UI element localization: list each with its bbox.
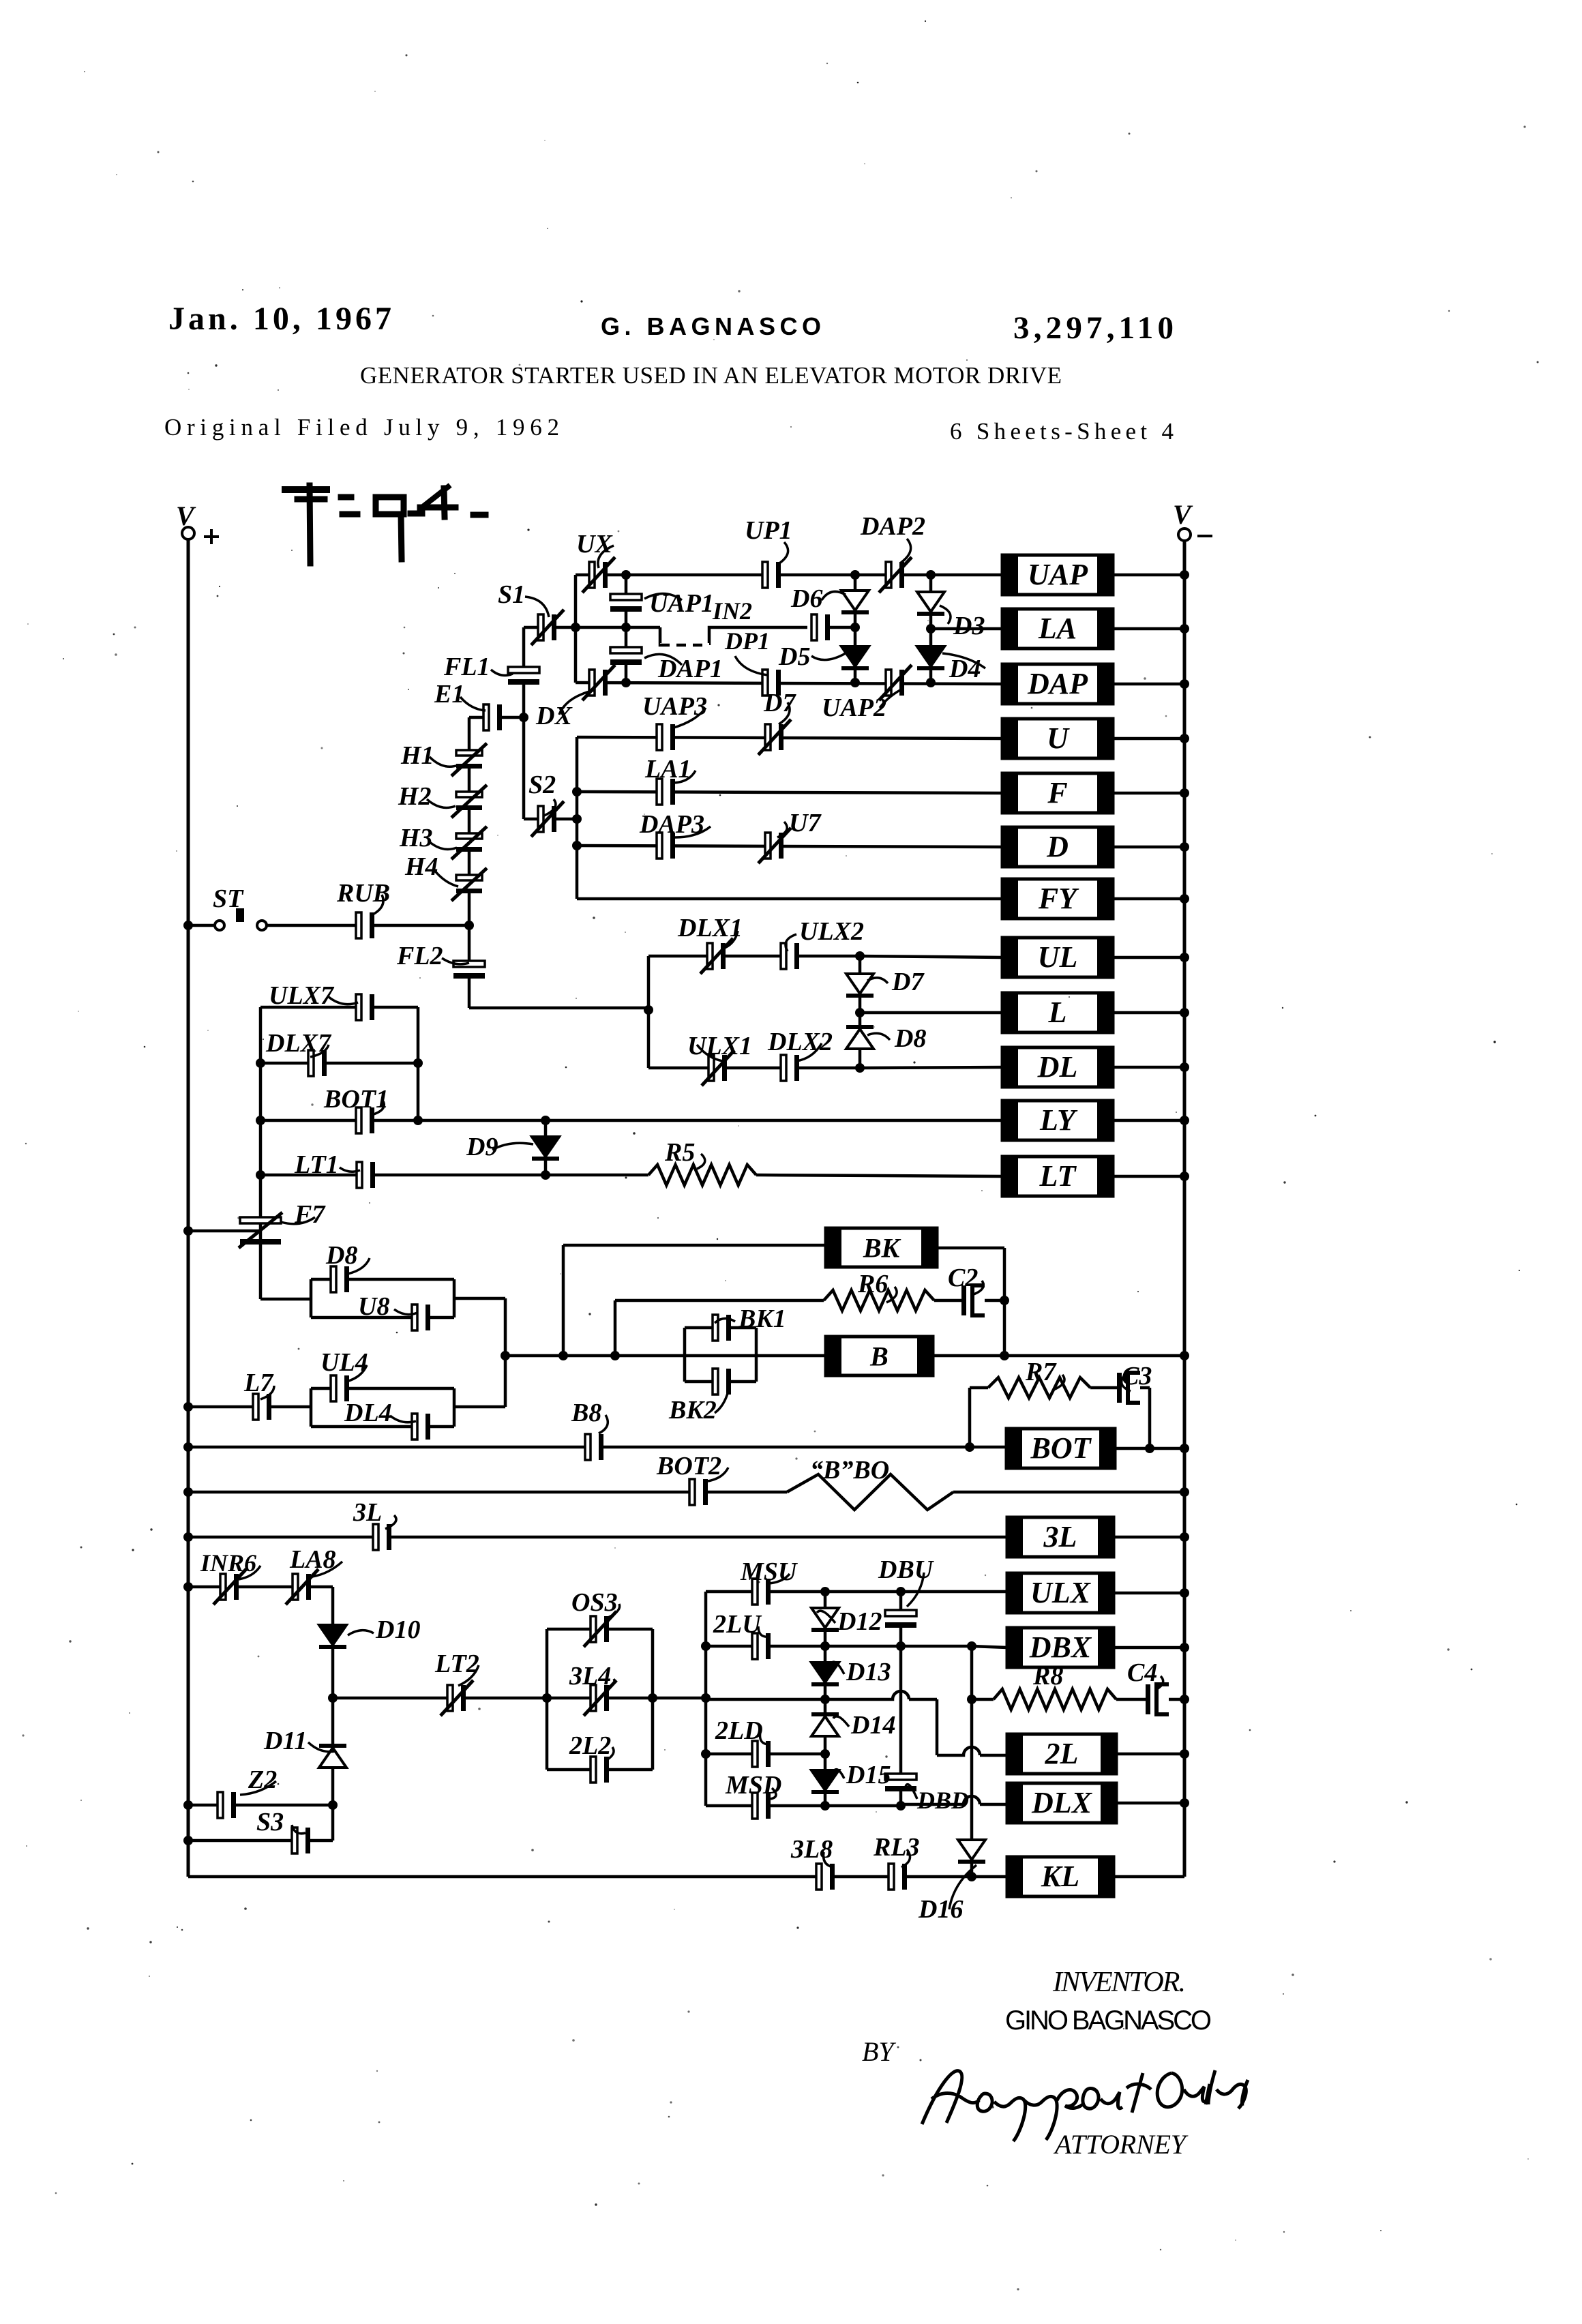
svg-text:DLX: DLX	[1031, 1786, 1093, 1819]
svg-text:DLX2: DLX2	[767, 1028, 833, 1056]
junction F7 on positive rail	[183, 1226, 193, 1236]
junction 3L4 left	[542, 1693, 552, 1703]
wire LT1 row	[260, 1174, 648, 1177]
leader R5	[697, 1154, 705, 1169]
wire 2L feed step	[936, 1699, 939, 1755]
svg-text:D16: D16	[918, 1895, 963, 1924]
wire mechanical interlock dashed link	[660, 627, 807, 645]
junction UAP1 bottom DAP1 top	[621, 623, 631, 632]
svg-text:LA: LA	[1038, 612, 1077, 645]
leader D8b	[867, 1033, 890, 1040]
leader 2L2	[606, 1747, 614, 1761]
svg-text:C2: C2	[948, 1264, 978, 1292]
junction ST on positive rail	[183, 921, 193, 930]
wire R8 lead	[972, 1698, 994, 1701]
junction D11 Z2 S3	[328, 1800, 338, 1810]
svg-text:DAP: DAP	[1027, 667, 1088, 700]
contact L7	[253, 1394, 271, 1420]
junction D14 D15	[820, 1749, 830, 1759]
junction D12 D13	[820, 1641, 830, 1651]
wire C4 to negative rail	[1169, 1698, 1184, 1701]
contact LA1	[657, 779, 675, 805]
svg-text:H4: H4	[404, 852, 438, 881]
wire F7 to D8 U8 group	[260, 1298, 311, 1301]
relay coil B	[826, 1337, 933, 1375]
wire Z2 to S3 link	[331, 1805, 335, 1841]
capacitor contact DAP1	[610, 647, 642, 665]
svg-text:D: D	[1046, 830, 1069, 863]
junction BK branch bottom	[558, 1351, 568, 1360]
wire left positive rail	[187, 539, 190, 1877]
wire FY coil to negative rail	[1113, 897, 1184, 901]
wire 2LD row	[706, 1753, 825, 1756]
leader 3L8	[824, 1852, 833, 1867]
wire UL4 DL4 left vertical	[310, 1388, 313, 1427]
leader DX	[559, 690, 595, 715]
wire UL coil to negative rail	[1113, 956, 1184, 959]
wire UL row to coil	[860, 956, 1002, 957]
leader DLX1	[721, 931, 738, 949]
leader D6	[822, 592, 846, 601]
diode D14	[811, 1712, 839, 1736]
junction C2 node	[1000, 1296, 1009, 1305]
leader LA8	[312, 1562, 342, 1577]
junction BOT1 right	[413, 1116, 423, 1125]
leader D7b	[867, 978, 888, 983]
leader DL4	[390, 1416, 416, 1422]
terminal V+ supply	[176, 501, 219, 544]
contact UX	[582, 557, 615, 593]
leader LA1	[672, 771, 696, 783]
junction LY on negative rail	[1180, 1116, 1189, 1125]
fuse F7	[239, 1212, 282, 1248]
junction UAP1 top	[621, 570, 631, 580]
leader C2	[974, 1281, 983, 1294]
contact H3	[451, 826, 487, 859]
junction B row on negative rail	[1180, 1351, 1189, 1360]
resistor R7	[988, 1377, 1090, 1398]
svg-text:R8: R8	[1032, 1662, 1063, 1690]
svg-text:BY: BY	[862, 2036, 896, 2067]
junction BO row on negative rail	[1180, 1487, 1189, 1497]
capacitor C4	[1146, 1684, 1169, 1714]
wire S1 node to interlock	[576, 626, 660, 629]
junction R8 C4 on negative rail	[1180, 1695, 1189, 1704]
svg-text:2LU: 2LU	[713, 1610, 762, 1639]
svg-text:D12: D12	[837, 1607, 882, 1636]
wire UAP coil to negative rail	[1113, 573, 1184, 577]
wire LT2 row	[333, 1697, 547, 1700]
wire 2L feed over R8 branch	[937, 1747, 1007, 1755]
wire B8 BOT row	[188, 1446, 1006, 1449]
relay coil UL	[1002, 938, 1113, 977]
svg-text:D13: D13	[846, 1658, 891, 1686]
svg-text:D8: D8	[894, 1024, 926, 1053]
wire U coil to negative rail	[1113, 737, 1184, 741]
junction D16 on KL row	[967, 1872, 976, 1881]
relay coil LT	[1002, 1157, 1113, 1196]
wire rail to L7 group	[188, 1405, 311, 1409]
capacitor DBU	[885, 1610, 916, 1628]
svg-text:FL2: FL2	[396, 942, 443, 970]
wire D13 row over DBD branch	[825, 1691, 937, 1699]
svg-text:UL: UL	[1038, 940, 1078, 974]
relay coil ULX	[1007, 1573, 1114, 1613]
wire right negative rail	[1183, 541, 1186, 1877]
svg-text:D7: D7	[763, 689, 796, 717]
relay coil DLX	[1007, 1783, 1116, 1823]
relay coil DBX	[1007, 1628, 1114, 1667]
svg-text:LY: LY	[1039, 1103, 1078, 1137]
junction R6 branch bottom	[610, 1351, 620, 1360]
leader C3	[1122, 1376, 1131, 1391]
leader ULX7	[329, 997, 358, 1004]
leader D13	[831, 1662, 844, 1674]
leader DP1	[735, 656, 768, 675]
contact DAP3	[657, 833, 675, 859]
wire BK1 BK2 group	[683, 1328, 687, 1382]
leader U7	[777, 822, 787, 837]
wire BK C2 vertical	[1003, 1248, 1006, 1356]
capacitor DBD	[885, 1774, 916, 1791]
switch ST start pushbutton	[215, 908, 267, 930]
diode D10	[319, 1625, 346, 1649]
leader DBU	[907, 1573, 924, 1607]
wire MSU row	[706, 1590, 1007, 1594]
contact H4	[451, 868, 487, 901]
contact BK2	[713, 1369, 731, 1395]
wire UL group left vertical	[647, 956, 651, 1068]
resistor R5	[648, 1165, 756, 1185]
svg-text:U8: U8	[358, 1292, 389, 1321]
wire group exit down	[504, 1298, 507, 1356]
relay coil LA	[1002, 609, 1113, 649]
wire LA row	[931, 627, 1002, 631]
junction 2L on negative rail	[1180, 1749, 1189, 1759]
figure label Fig.4	[285, 486, 486, 563]
svg-text:GENERATOR STARTER USED IN AN E: GENERATOR STARTER USED IN AN ELEVATOR MO…	[360, 362, 1062, 389]
wire rail to ST	[188, 924, 214, 927]
leader LT1	[340, 1167, 360, 1172]
contact S2	[531, 801, 564, 837]
leader BOT1	[372, 1101, 384, 1115]
leader BK1	[715, 1318, 735, 1323]
diode D9	[532, 1137, 559, 1161]
wire ULX7 group right vertical	[417, 1007, 420, 1120]
svg-text:IN2: IN2	[712, 597, 752, 625]
svg-text:C4: C4	[1127, 1658, 1157, 1687]
wire D9 branch	[544, 1120, 548, 1175]
svg-text:H2: H2	[398, 782, 432, 811]
leader S1	[525, 597, 549, 617]
junction LT2 feed	[701, 1693, 711, 1703]
wire DBX coil to negative rail	[1114, 1646, 1184, 1650]
junction L7 on positive rail	[183, 1402, 193, 1412]
relay coil LY	[1002, 1101, 1113, 1140]
wire DLX7 branch	[260, 1062, 418, 1065]
leader MSU	[769, 1574, 790, 1583]
svg-text:BK2: BK2	[668, 1396, 717, 1425]
leader F7	[281, 1217, 315, 1224]
wire U8 branch	[311, 1316, 454, 1320]
wire OS3 branch	[547, 1628, 653, 1631]
leader BK2	[715, 1391, 728, 1413]
svg-text:LT: LT	[1039, 1159, 1077, 1193]
wire R7 to C3	[1090, 1386, 1117, 1390]
svg-text:S1: S1	[498, 580, 525, 609]
wire BOT2 row	[188, 1491, 787, 1494]
wire BK1 branch	[685, 1326, 756, 1330]
diode D15	[811, 1770, 839, 1794]
relay coil U	[1002, 719, 1113, 758]
junction DBU top	[896, 1587, 906, 1596]
leader DAP2	[900, 539, 911, 563]
wire UL4 branch	[311, 1387, 454, 1390]
junction 2LU row left	[701, 1641, 711, 1651]
wire D13 row	[706, 1698, 825, 1701]
diode D3	[917, 592, 944, 616]
junction 3L row on positive rail	[183, 1532, 193, 1542]
relay coil BK	[826, 1228, 937, 1267]
contact RL3	[889, 1864, 907, 1890]
leader DLX2	[796, 1043, 822, 1061]
svg-text:D14: D14	[850, 1711, 895, 1740]
junction DAP1 bottom	[621, 678, 631, 687]
svg-text:D9: D9	[466, 1133, 498, 1161]
wire LY coil to negative rail	[1113, 1119, 1184, 1122]
svg-text:2LD: 2LD	[715, 1716, 763, 1745]
contact UAP2	[879, 665, 912, 700]
wire UAP1 DAP1 branch	[625, 575, 628, 683]
wire DL row branch	[648, 1067, 860, 1070]
wire FL2 branch	[468, 925, 471, 1008]
svg-text:DBD: DBD	[916, 1787, 969, 1814]
leader H2	[427, 799, 456, 807]
wire DAP coil to negative rail	[1113, 683, 1184, 686]
junction DBX on negative rail	[1180, 1643, 1189, 1652]
svg-text:Jan. 10, 1967: Jan. 10, 1967	[168, 301, 391, 337]
svg-text:GINO BAGNASCO: GINO BAGNASCO	[1005, 2006, 1212, 2036]
leader D11	[308, 1742, 335, 1752]
leader 2LU	[758, 1626, 769, 1637]
contact D8	[331, 1266, 349, 1292]
svg-text:B: B	[869, 1341, 889, 1372]
diode D6	[841, 591, 869, 614]
contact BK1	[713, 1315, 731, 1341]
leader UX	[598, 546, 614, 568]
wire group exit up	[504, 1356, 507, 1407]
contact H2	[451, 785, 487, 818]
svg-text:3L8: 3L8	[790, 1835, 833, 1864]
junction S3 on positive rail	[183, 1836, 193, 1845]
leader D5	[811, 653, 846, 660]
leader D14	[833, 1716, 849, 1727]
wire MSD row to DLX coil	[901, 1796, 1007, 1804]
contact LT2	[441, 1680, 473, 1716]
junction H chain RUB FL2	[464, 921, 474, 930]
contact U8	[412, 1305, 430, 1330]
svg-text:F: F	[1047, 776, 1067, 809]
wire D coil to negative rail	[1113, 846, 1184, 849]
wire F7 branch	[259, 1175, 263, 1299]
leader 3L	[385, 1515, 396, 1529]
leader RUB	[372, 895, 383, 915]
relay coil UAP	[1002, 555, 1113, 595]
relay coil D	[1002, 827, 1113, 867]
svg-text:RL3: RL3	[873, 1833, 920, 1862]
wire OS3 group verticals	[546, 1629, 549, 1770]
wire Z2 row	[188, 1804, 333, 1807]
junction ULX on negative rail	[1180, 1588, 1189, 1598]
wire UL4 DL4 right vertical	[453, 1388, 456, 1427]
junction 3L on negative rail	[1180, 1532, 1189, 1542]
wire H contact chain	[468, 717, 471, 925]
svg-text:U: U	[1047, 721, 1070, 755]
junction LA on negative rail	[1180, 624, 1189, 634]
leader UAP1	[644, 593, 682, 600]
wire D10 branch	[331, 1587, 335, 1698]
capacitor C2	[961, 1285, 985, 1315]
capacitor contact UAP1	[610, 594, 642, 612]
contact 3L	[373, 1524, 391, 1550]
svg-text:MSD: MSD	[725, 1771, 781, 1800]
contact 2LD	[752, 1741, 771, 1767]
leader H3	[428, 841, 457, 849]
leader S2	[544, 799, 556, 816]
wire FY row	[577, 897, 1002, 901]
capacitor C3	[1117, 1373, 1140, 1403]
svg-text:H3: H3	[399, 824, 433, 852]
svg-text:3,297,110: 3,297,110	[1013, 310, 1174, 346]
wire LT coil to negative rail	[1113, 1175, 1184, 1178]
wire BK row	[563, 1244, 826, 1247]
wire FL2 to UL group	[469, 1007, 648, 1010]
diode D8	[846, 1025, 874, 1049]
wire DL row to coil	[860, 1067, 1002, 1068]
junction DBU bottom	[896, 1641, 906, 1651]
contact Z2	[218, 1792, 236, 1818]
leader D10	[348, 1630, 374, 1635]
leader DBD	[906, 1785, 917, 1799]
junction 2LD row left	[701, 1749, 711, 1759]
junction R7 C3 on BOT row	[965, 1442, 974, 1452]
contact H1	[451, 743, 487, 776]
junction BOT2 on positive rail	[183, 1487, 193, 1497]
leader D7	[779, 702, 790, 724]
wire D7 D8 branch	[859, 956, 862, 1068]
contact S3	[292, 1828, 310, 1853]
svg-text:3L4: 3L4	[569, 1662, 611, 1690]
svg-text:BOT1: BOT1	[323, 1085, 389, 1114]
wire DAP row	[576, 683, 1002, 684]
resistor R6	[824, 1290, 934, 1311]
wire D8 U8 right vertical	[453, 1279, 456, 1317]
contact 2LU	[752, 1633, 771, 1659]
svg-text:FL1: FL1	[443, 653, 490, 681]
contact DLX1	[700, 938, 733, 974]
junction S2 to bus	[572, 814, 582, 824]
contact ULX7	[356, 994, 374, 1020]
junction BOT1 left	[256, 1116, 265, 1125]
leader INR6	[239, 1566, 260, 1579]
svg-text:R5: R5	[664, 1138, 695, 1167]
wire D8 U8 left vertical	[310, 1279, 313, 1317]
svg-text:UP1: UP1	[745, 516, 792, 545]
wire R6 to C2	[934, 1299, 961, 1302]
svg-text:V: V	[176, 501, 196, 531]
relay coil DAP	[1002, 664, 1113, 704]
svg-text:Original Filed July 9, 1962: Original Filed July 9, 1962	[164, 414, 559, 441]
svg-text:UAP: UAP	[1028, 558, 1088, 591]
svg-text:D11: D11	[263, 1727, 307, 1755]
leader UP1	[777, 542, 788, 565]
contact INR6	[213, 1569, 246, 1605]
contact DLX7	[308, 1050, 327, 1076]
relay coil FY	[1002, 879, 1113, 919]
wire DBX to KL vertical	[970, 1646, 974, 1877]
svg-text:S2: S2	[528, 771, 556, 799]
svg-text:INR6: INR6	[200, 1549, 256, 1577]
wire B coil to negative rail	[933, 1354, 1184, 1358]
svg-text:“B”BO: “B”BO	[810, 1456, 889, 1485]
relay coil DL	[1002, 1047, 1113, 1087]
junction LA1 row on bus	[572, 787, 582, 796]
wire R7 lead	[970, 1386, 988, 1390]
leader B8	[599, 1415, 608, 1433]
wire ULX7 group left vertical	[259, 1007, 263, 1175]
svg-text:R6: R6	[857, 1270, 888, 1298]
wire 2L coil to negative rail	[1116, 1753, 1184, 1756]
wire LA coil to negative rail	[1113, 627, 1184, 631]
contact BOT1	[356, 1107, 374, 1133]
junction B8 on positive rail	[183, 1442, 193, 1452]
leader H4	[434, 869, 458, 887]
svg-text:C3: C3	[1122, 1362, 1152, 1390]
junction DLX on negative rail	[1180, 1798, 1189, 1808]
relay coil F	[1002, 773, 1113, 813]
leader DAP3	[675, 826, 711, 837]
wire D8 branch	[311, 1278, 454, 1281]
leader MSD	[771, 1788, 776, 1799]
svg-text:ULX2: ULX2	[799, 917, 864, 946]
contact B8	[585, 1434, 603, 1460]
junction Z2 on positive rail	[183, 1800, 193, 1810]
leader R6	[886, 1287, 897, 1302]
diode D4	[917, 646, 944, 670]
wire UAP3 row	[577, 737, 1002, 739]
leader D4	[942, 653, 985, 668]
svg-text:G. BAGNASCO: G. BAGNASCO	[601, 312, 821, 340]
svg-text:LT2: LT2	[434, 1650, 479, 1678]
diode D13	[811, 1663, 839, 1686]
svg-text:U7: U7	[789, 809, 822, 837]
leader DLX7	[310, 1045, 329, 1057]
contact DLX2	[781, 1055, 799, 1081]
junction DAP on negative rail	[1180, 679, 1189, 689]
leader D15	[833, 1770, 844, 1778]
junction D6 anode	[850, 570, 860, 580]
resistor "B"BO ballast	[787, 1474, 953, 1510]
capacitor contact FL2	[453, 961, 485, 979]
junction C3 on BOT out	[1145, 1444, 1154, 1453]
junction UAP on negative rail	[1180, 570, 1189, 580]
leader S3	[292, 1825, 305, 1834]
wire group to MS bus	[653, 1697, 706, 1700]
svg-text:L: L	[1048, 996, 1067, 1029]
wire ST to RUB to H chain	[266, 924, 469, 927]
junction D9 cathode on LT row	[541, 1170, 550, 1180]
svg-text:UX: UX	[576, 530, 613, 558]
